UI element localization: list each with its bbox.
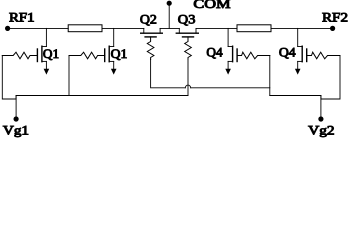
gate resistor of second Q1 (zigzag)	[69, 52, 105, 59]
node Vg1 terminal dot	[14, 116, 19, 121]
node Vg1 junction / stem	[15, 96, 17, 120]
node Vg2 terminal dot	[318, 116, 323, 121]
transistor Q4 (first shunt FET, gate on right)	[225, 28, 237, 74]
wire Q2 source to Q3 drain	[160, 27, 179, 29]
svg-text:COM: COM	[193, 0, 230, 11]
svg-text:RF2: RF2	[322, 11, 348, 25]
node RF2 terminal dot	[330, 26, 335, 31]
resistor R1 (series, box)	[68, 25, 102, 32]
wire Q3 gate down to Vg1 rail	[187, 60, 189, 96]
gate resistor of Q3 (vertical zigzag)	[185, 37, 192, 60]
node COM terminal dot	[167, 1, 172, 6]
transistor Q1 (second shunt FET)	[105, 28, 117, 74]
wire gate of second Q4 down to Vg2 corner	[321, 56, 340, 100]
svg-text:Vg2: Vg2	[308, 124, 334, 138]
gate resistor of Q2 (vertical zigzag)	[147, 37, 154, 60]
node RF1 terminal dot	[5, 26, 10, 31]
svg-text:Q1: Q1	[43, 47, 59, 61]
transistor Q4 (second shunt FET, gate on right)	[295, 28, 307, 74]
wire COM stem	[168, 3, 170, 28]
gate resistor of second Q4 (zigzag)	[307, 52, 340, 59]
svg-text:Vg1: Vg1	[3, 124, 29, 138]
wire RF1 to R1	[8, 27, 69, 29]
transistor Q1 (first shunt FET, drain lead from top wire)	[37, 28, 49, 74]
svg-text:Q2: Q2	[140, 13, 157, 27]
wire Vg1 rail	[16, 95, 188, 97]
transistor Q3 (series FET, horizontal)	[176, 28, 198, 37]
wire Q2 gate down and across to right (line A)	[151, 60, 186, 88]
gate resistor of first Q1 (zigzag)	[2, 52, 37, 59]
wire R2 to RF2	[271, 27, 333, 29]
svg-text:Q4: Q4	[279, 45, 296, 59]
wire Vg2 rail	[270, 95, 321, 97]
svg-text:Q1: Q1	[111, 47, 128, 61]
svg-text:RF1: RF1	[9, 11, 35, 25]
wire gate of first Q1 down to Vg1 corner	[2, 56, 16, 100]
gate resistor of first Q4 (zigzag)	[237, 52, 270, 59]
wire gate of first Q4 down to junction with line A and right rail	[269, 56, 271, 96]
transistor Q2 (series FET, horizontal)	[141, 28, 163, 37]
svg-text:Q3: Q3	[178, 13, 196, 27]
wire Q3 source to R2	[196, 27, 237, 29]
svg-text:Q4: Q4	[206, 45, 222, 59]
wire R1 to Q2 drain	[102, 27, 144, 29]
wire hop over Q3 gate wire	[185, 85, 190, 88]
wire Vg2 stem	[320, 96, 322, 120]
wire line A continues to Q4 gate corner	[191, 87, 270, 89]
resistor R2 (series, box)	[237, 25, 271, 32]
wire gate feed of second Q1 down to rail	[68, 56, 70, 96]
